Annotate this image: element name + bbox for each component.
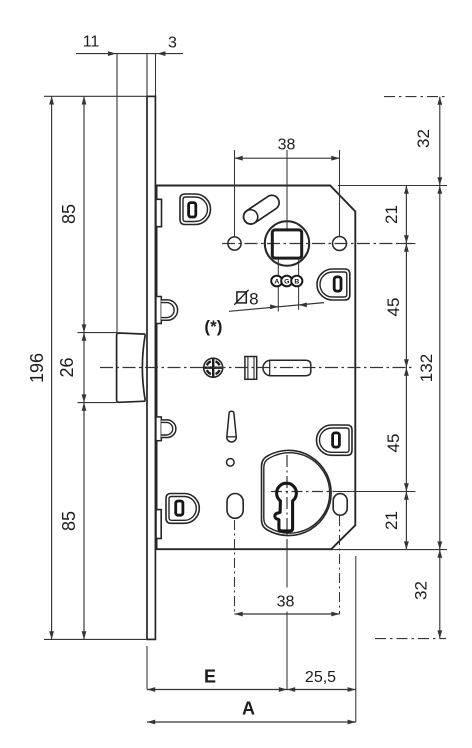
case left edge: [156, 186, 158, 550]
extension dash-dot right oval axis: [339, 516, 341, 614]
top dimension line for 11 and 3: [76, 34, 183, 57]
cylinder horizontal centerline: [271, 491, 416, 493]
svg-text:45: 45: [384, 298, 403, 317]
dimension chain 32 132 32: [412, 97, 443, 639]
extension line right hole axis top: [339, 150, 341, 236]
upper spring loop: [156, 297, 178, 324]
extension line hub level right: [396, 243, 416, 245]
stamped detent top left: [180, 194, 210, 225]
oval slot right: [333, 494, 347, 516]
dimension chain 85 26 85: [57, 96, 86, 639]
extension line faceplate front: [146, 54, 148, 97]
elongated slot: [227, 411, 237, 442]
svg-text:32: 32: [414, 129, 433, 148]
svg-text:E: E: [204, 667, 216, 687]
datum dash-dot faceplate top right: [384, 96, 446, 98]
svg-text:85: 85: [59, 204, 79, 224]
svg-text:38: 38: [277, 594, 295, 611]
left extension line top: [44, 95, 146, 97]
spindle square hole: [272, 230, 301, 258]
dimension 8 leader: [229, 259, 324, 312]
svg-text:132: 132: [417, 354, 436, 382]
svg-text:196: 196: [27, 353, 47, 383]
extension line latch bottom: [78, 402, 117, 404]
hub centerline: [222, 243, 412, 245]
dimension 38 bottom: [235, 594, 340, 617]
extension line left hole axis top: [234, 150, 236, 236]
left extension line bottom: [44, 638, 146, 640]
note asterisk: [204, 317, 222, 336]
svg-text:45: 45: [384, 434, 403, 453]
stamped detent right middle: [317, 269, 350, 300]
lock case outline: [157, 186, 356, 550]
extension line faceplate back: [155, 54, 157, 97]
lower spring loop: [156, 417, 176, 441]
adjusting screw: [204, 358, 223, 377]
lower tab: [156, 510, 161, 539]
spindle hub circle: [265, 221, 309, 265]
extension line case top right: [338, 185, 447, 187]
fixing hole right: [333, 237, 347, 251]
angled roller pin: [241, 192, 282, 226]
cylinder boss: [262, 450, 332, 535]
svg-text:A: A: [242, 699, 255, 719]
cylinder vertical centerline: [286, 455, 288, 549]
AGB logo: [271, 276, 302, 287]
svg-text:21: 21: [382, 205, 401, 224]
svg-text:85: 85: [59, 511, 79, 531]
extension line hub axis top: [286, 150, 288, 232]
small hole: [227, 459, 235, 467]
svg-text:11: 11: [83, 34, 100, 51]
svg-text:A: A: [274, 278, 279, 285]
dimension 38 top: [235, 137, 340, 161]
stamped detent bottom left: [166, 493, 199, 523]
svg-text:B: B: [294, 278, 299, 285]
extension line faceplate bottom ref: [146, 646, 148, 690]
extension line latch top: [78, 332, 117, 334]
svg-text:G: G: [284, 278, 289, 285]
extension dash-dot left oval axis: [234, 520, 236, 614]
euro cylinder hole: [275, 483, 297, 531]
svg-text:25,5: 25,5: [305, 669, 336, 686]
svg-text:21: 21: [382, 511, 401, 530]
extension line case bottom right: [329, 549, 447, 551]
extension line cylinder axis bottom: [286, 549, 288, 690]
upper tab: [156, 199, 162, 226]
datum dash-dot faceplate bottom right: [375, 638, 446, 640]
faceplate: [146, 96, 156, 639]
guide pin: [263, 360, 311, 376]
dimension E and 25,5: [147, 667, 356, 692]
fixing hole left: [228, 237, 241, 250]
oval slot center: [227, 494, 243, 519]
dimension chain 21 45 45 21: [382, 186, 409, 550]
spacer bush: [245, 357, 257, 380]
dimension 196: [27, 96, 54, 639]
svg-text:26: 26: [57, 357, 77, 377]
dimension A: [147, 699, 356, 725]
svg-text:(*): (*): [204, 317, 222, 336]
extension line latch tip: [116, 54, 118, 334]
extension line case right bottom ref: [355, 556, 357, 722]
main centerline: [100, 367, 412, 369]
svg-text:8: 8: [249, 290, 258, 309]
stamped detent right lower: [316, 425, 352, 455]
svg-text:3: 3: [168, 35, 177, 52]
latch bolt: [117, 333, 146, 402]
label square 8: [234, 290, 258, 309]
svg-text:32: 32: [412, 581, 431, 600]
